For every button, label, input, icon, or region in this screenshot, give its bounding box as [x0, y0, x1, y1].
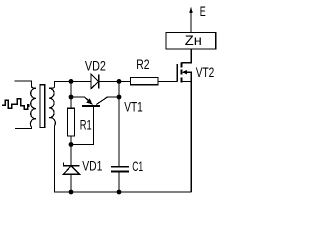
MOSFET VT2: [177, 48, 191, 192]
rail dot VD1: [69, 190, 74, 195]
wire node B down to C1: [118, 81, 120, 166]
collector junction dot: [117, 95, 122, 100]
label VT1: [124, 100, 143, 115]
capacitor C1: [111, 167, 129, 192]
node emitter junction dot: [69, 95, 74, 100]
label R1: [80, 118, 92, 133]
svg-text:R1: R1: [80, 118, 92, 133]
node A dot: [69, 79, 74, 84]
svg-text:R2: R2: [136, 57, 149, 72]
svg-text:VD1: VD1: [82, 159, 102, 174]
diode VD2: [91, 74, 99, 88]
svg-text:E: E: [200, 4, 206, 19]
svg-text:VT1: VT1: [124, 100, 143, 115]
label VD2: [85, 59, 106, 74]
svg-text:Zн: Zн: [185, 33, 202, 48]
transformer T1 core: [40, 85, 45, 128]
label Zн: [185, 33, 202, 48]
wire secondary top to node A: [55, 81, 92, 86]
zener diode VD1: [63, 162, 79, 192]
node B dot: [117, 79, 122, 84]
label VT2: [196, 65, 215, 80]
transformer T1 secondary winding: [49, 87, 55, 126]
label E: [200, 4, 206, 19]
output arrow E: [189, 7, 192, 33]
label VD1: [82, 159, 102, 174]
svg-text:C1: C1: [132, 159, 143, 174]
wire VD2 to R2: [99, 80, 131, 82]
pulse input waveform: [2, 99, 29, 109]
node base junction dot: [69, 142, 74, 147]
resistor R1: [68, 108, 75, 136]
svg-text:VT2: VT2: [196, 65, 215, 80]
rail dot C1: [117, 190, 122, 195]
load Zн box: [166, 32, 216, 49]
wire R1 to VD1: [70, 136, 72, 166]
bottom rail wire: [55, 126, 192, 192]
wire node A down to R1: [70, 81, 72, 108]
resistor R2: [130, 78, 158, 85]
svg-text:VD2: VD2: [85, 59, 106, 74]
wire R2 to VT2 gate: [158, 80, 177, 82]
label R2: [136, 57, 149, 72]
transformer T1 primary winding: [15, 81, 36, 129]
label C1: [132, 159, 143, 174]
transistor VT1: [71, 97, 119, 145]
